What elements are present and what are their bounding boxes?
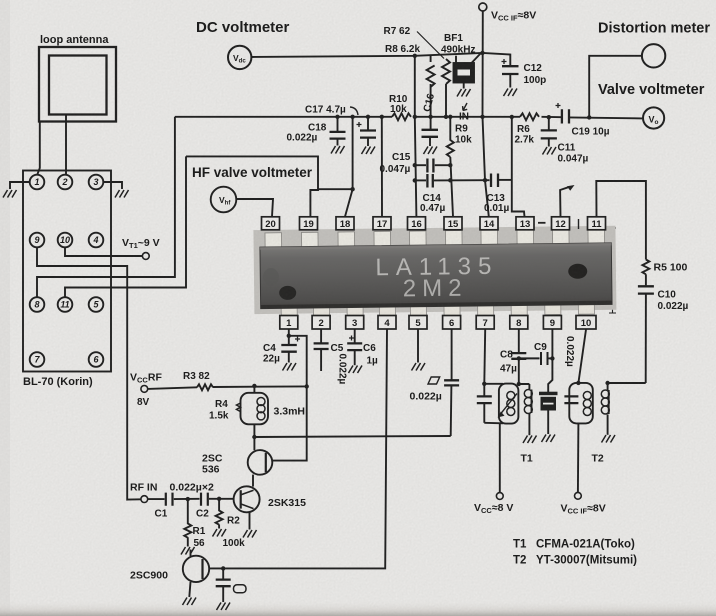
capacitor C12 [483,53,511,66]
module pin 6 [89,352,104,367]
wire IC pin 6 down [451,330,453,380]
module pin 4 [89,233,104,248]
ground BF1 [457,89,471,97]
wire bus segment 3 [542,116,562,118]
trimmer mark parallelogram [428,377,440,384]
wire VCC RF rail [148,387,197,389]
wire T2 secondary to ground [607,415,609,435]
module pin 8 [30,297,45,312]
transformer T1 primary coil turns [507,392,515,400]
transistor Q2 2SK315 [234,486,260,512]
plus mark C4 [295,337,300,342]
wire CF ground lead [547,411,549,435]
module pin 1 [30,175,45,190]
capacitor C11 [548,117,550,129]
resistor R1 [184,499,191,546]
ground at module pin3 [115,190,129,198]
pointer curl C17 [350,107,358,115]
wire IC pin 3 down [354,330,356,343]
capacitor C18 [337,117,339,131]
ground IC pin 5 [412,363,426,371]
transformer T1 secondary coil [531,390,533,414]
wire IC pin 5 down [417,330,419,363]
wire AGC long horizontal [254,436,450,437]
ground C3 [217,603,231,611]
resistor R8 [427,56,435,130]
module pin numerals [34,177,99,365]
ground T1 secondary [523,436,537,444]
wire IC pin 7 down [483,330,486,384]
capacitor C19 plates [562,109,569,123]
resistor R5 [642,260,649,286]
capacitor C10 [638,286,654,293]
resistor R6 inline [520,113,539,120]
wire IC pin 16 vertical [415,56,417,217]
pin number boxes top row [262,217,606,230]
capacitor C7 on pin 6 [444,380,459,385]
transistor Q1 2SC536 [248,450,273,475]
ground CF [542,435,556,443]
wire BF1 left lead [455,56,457,63]
capacitor C16 electrolytic [422,130,439,137]
wire R3 to pin1 column [213,385,307,388]
wire T1 to VCC terminal [499,424,501,493]
ground C18 [331,146,345,154]
wire IC pin 9 down [548,330,552,395]
wire IC pin 12 arrow testpoint [560,187,569,217]
wire module pin9 down to RF IN node [37,247,141,499]
wire Vhf meter to IC pin 20 [236,199,273,217]
resistor R7 pointer line [417,32,444,59]
wire loop inner to module pin 2 [65,115,67,175]
plus mark C12 [502,59,507,64]
wire Q3 emitter to ground [189,582,190,597]
capacitor C5 [314,343,329,349]
wire bus segment to Vo meter [569,117,642,118]
transformer T2 secondary coil [608,390,610,414]
wire C2 to Q2 gate [209,498,234,500]
ground C12 [504,89,518,97]
capacitor C2 [201,493,208,506]
terminal VT1 [142,253,149,260]
wire bus segment 2 [414,116,521,118]
capacitor C8 electrolytic [511,353,526,359]
wire loop outer to module pin 1 [37,122,40,175]
transformer T2 primary coil turns [583,392,591,400]
ground C11 [543,147,557,155]
loop antenna L1 inner turn [49,56,107,115]
meter circle distortion meter [642,44,665,67]
wire C1 to C2 [174,498,200,500]
resistor R10 inline [392,113,411,120]
wire module pin10 to VT1 terminal [65,247,142,256]
wire module pin11 to HF voltmeter rail [65,156,186,297]
wire module pin8 up to signal bus [37,117,175,297]
wire T2 secondary top to C10 column [608,383,646,390]
ground R2 [213,529,227,537]
resistor R3 inline [197,384,213,390]
dimension bracket right of IC [609,228,616,313]
wire Q2 source to ground [249,512,251,530]
transistor Q3 2SC900 [183,556,209,582]
ceramic discriminator CF body [541,397,557,411]
transformer T2 primary tank [569,383,593,424]
transformer T1 tuning capacitor [483,384,485,396]
wire IC pin 4 to Q3 base [209,330,387,569]
terminal VCC IF 8V bottom [575,492,582,499]
inductor 3.3mH turns [257,398,265,406]
wire BF1 right lead [472,54,481,64]
module pin 5 [89,297,104,312]
capacitor C4 electrolytic [281,345,297,352]
IC U1 left dimple [279,286,296,300]
wire IC pin 1 down [288,330,290,345]
capacitor C15 in series [415,164,426,166]
wire IC pin 10 to T2 [578,330,586,383]
ground C6 [349,366,363,374]
resistor R7 [442,59,450,117]
capacitor C17 electrolytic [367,117,369,130]
wire IC pin 17 vertical [381,117,383,217]
terminal VCC RF [141,386,148,393]
IC U1 top legs [265,229,605,248]
op-amp style meter Vhf circle [211,187,237,213]
resistor R4 marks [237,403,241,412]
IC U1 bottom legs [281,304,594,318]
wire IC pin 8 down [518,330,520,353]
plus mark C19 [556,103,561,108]
wire BF1 ground lead [463,83,465,89]
capacitor C1 [166,493,173,506]
wire module pin3 to ground [103,182,122,189]
pin number boxes bottom row [280,316,596,330]
wire T2 primary to VCC IF terminal [577,423,580,492]
IC U1 molding mark [263,268,279,286]
wire C13 to bus and IC pin 13 [512,117,525,217]
wire C10 to T2 secondary [645,294,647,383]
capacitor C9 in series [519,352,548,365]
wire IC pin 18 vertical [345,117,353,217]
transformer T2 tuning capacitor plates [564,396,578,403]
wire RF IN to C1 [148,498,165,500]
plus mark C6 [349,336,354,341]
wire tank bottom to Q1 [253,424,255,450]
arrow IN [463,103,468,111]
label plate C3 [234,585,247,593]
terminal RF IN [141,496,148,503]
ceramic filter BF1 body [454,63,475,83]
transformer T1 tuning arrow [501,394,518,415]
ground C4 [283,363,297,371]
capacitor C13 in series [485,179,490,181]
module pin 10 [58,233,73,248]
wire module pin1 to ground [10,182,30,189]
tank R4 L1 top lead [253,386,255,393]
IC U1 body [260,243,612,309]
dash between pin 13 and 12 [538,222,546,224]
capacitor C6 electrolytic [347,343,362,350]
ground Q3 emitter [183,598,197,606]
ground C16 [424,147,438,155]
tank R4 and 3.3mH outline [241,393,269,425]
wire signal bus horizontal [175,116,392,118]
module pin 2 [58,175,73,190]
wire Q3 collector up [190,550,192,557]
capacitor C14 in series [415,179,426,181]
IC U1 right dimple [568,264,587,279]
module pin 11 [58,297,73,312]
ceramic discriminator CF top bar [539,392,558,396]
wire IC pin 11 to R5 column [596,181,646,260]
wire VCC vertical to IC pin 14 [483,11,489,217]
terminal VCC 8V [496,493,503,500]
resistor R9 [447,117,454,217]
wire HF voltmeter top rail [186,156,318,216]
ground T2 secondary [602,435,616,443]
tick before pin 11 [578,219,580,229]
wire Q1 to Q2 [252,475,254,487]
meter VDC circle [228,46,251,69]
module pin 9 [30,233,45,248]
wire pin1 node to Q1 collector [272,336,306,461]
module BL-70 body [23,171,111,372]
wire DC voltmeter to Vcc node [251,53,482,57]
module pin 7 [30,352,45,367]
wire T1 secondary top [528,384,530,389]
loop antenna L1 outer turn [39,47,116,122]
ground Q2 source [243,530,257,538]
wire T1 secondary to ground [528,414,530,436]
terminal VCC IF 8V top [479,3,487,11]
module pin 3 [89,175,104,190]
ground C17 [362,147,376,155]
meter circle valve voltmeter Vo [643,107,664,128]
ground R1 [181,547,195,555]
ground at module pin1 [3,190,17,198]
transformer T1 primary tank [484,384,503,424]
wire distortion meter to detector bus [589,56,642,118]
plus mark C17 [357,122,362,127]
wire HF rail branch to IC pin 18 [318,188,353,190]
wire IC pin 2 down [320,330,322,343]
capacitor C3 [222,568,224,578]
resistor R2 [216,499,223,529]
IC U1 LA1135 photo background [253,226,616,314]
